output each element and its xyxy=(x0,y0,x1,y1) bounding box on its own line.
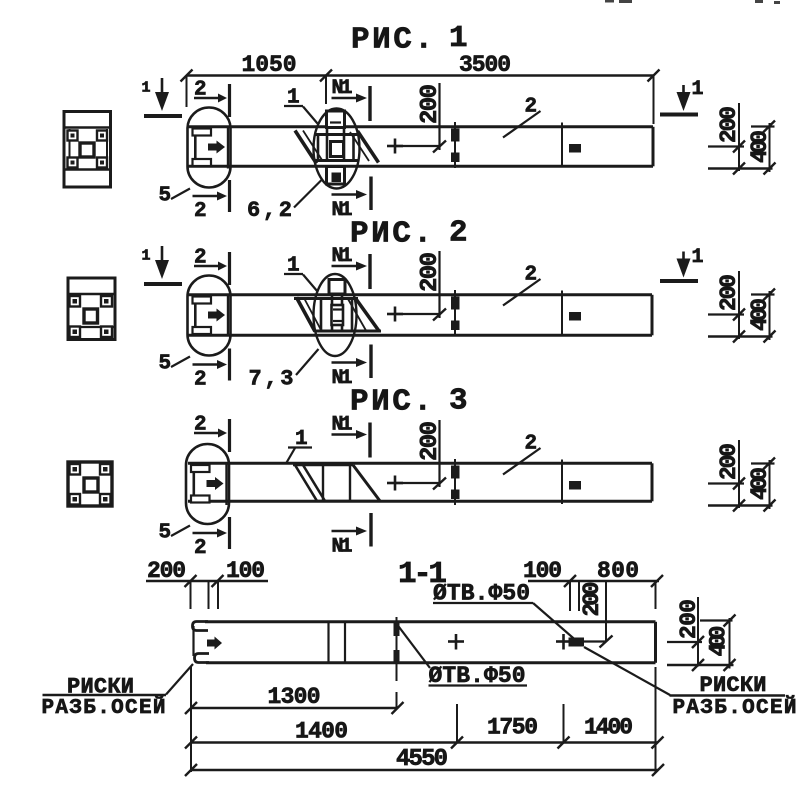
section mark N1 top fig2 xyxy=(332,245,371,289)
riski label left xyxy=(42,664,194,720)
label 1 fig1 xyxy=(284,87,318,124)
dims 200/400 right fig3 xyxy=(708,440,776,512)
hole label OTV F50 lower xyxy=(398,625,528,689)
joint tick marks fig3 xyxy=(451,459,581,505)
extension lines bottom xyxy=(190,667,192,772)
oval detail fig3 xyxy=(186,444,229,524)
beam section 1-1 xyxy=(205,622,656,663)
svg-text:РАЗБ.ОСЕЙ: РАЗБ.ОСЕЙ xyxy=(42,696,166,720)
dim 4550 xyxy=(185,746,664,776)
dims 200/400 right fig2 xyxy=(708,271,776,343)
svg-text:1: 1 xyxy=(142,80,151,97)
svg-text:6,2: 6,2 xyxy=(247,198,292,223)
joint detail fig3: parallelogram weld xyxy=(293,465,380,501)
section mark 2 bottom fig2 xyxy=(193,349,230,392)
svg-text:РИС.: РИС. xyxy=(351,23,433,58)
dim 200 mid fig2 xyxy=(387,251,446,322)
section mark 2 top fig1 xyxy=(194,79,230,118)
joint tick marks fig2 xyxy=(451,290,581,336)
section mark 2 bottom fig1 xyxy=(193,180,230,223)
section mark 2 top fig2 xyxy=(194,247,230,286)
joint detail fig1: ellipse xyxy=(314,109,360,189)
svg-text:200: 200 xyxy=(579,582,605,617)
joint fig1: connection plates xyxy=(318,111,354,184)
svg-text:1400: 1400 xyxy=(295,719,348,745)
dim 200 mid fig1 xyxy=(387,83,446,154)
beam fig2 xyxy=(188,295,652,336)
joint fig1: parallelogram weld xyxy=(295,131,379,164)
svg-text:РИС.: РИС. xyxy=(350,217,432,252)
joint fig2: connection plates xyxy=(321,280,352,332)
section mark N1 bottom fig3 xyxy=(332,513,372,559)
dims 200/400 right fig1 xyxy=(708,103,776,175)
top right dims 100 800 xyxy=(523,558,663,611)
svg-text:1: 1 xyxy=(692,246,704,269)
oval detail fig2 xyxy=(188,276,231,356)
label 2 beam fig3 xyxy=(503,433,541,475)
svg-text:1400: 1400 xyxy=(584,715,633,741)
svg-text:400: 400 xyxy=(706,626,732,657)
svg-text:1: 1 xyxy=(692,78,704,101)
svg-text:7,3: 7,3 xyxy=(249,367,294,392)
cross-section symbol fig1 xyxy=(64,112,111,188)
section mark 2 bottom fig3 xyxy=(193,517,230,560)
svg-text:3: 3 xyxy=(449,384,468,419)
riski label right xyxy=(584,647,797,720)
svg-text:РИСКИ: РИСКИ xyxy=(700,673,767,698)
top left dims 200 100 xyxy=(146,558,268,609)
beam fig1 xyxy=(188,127,653,167)
svg-text:РИС.: РИС. xyxy=(350,385,432,420)
dim 1400 1750 1400 xyxy=(185,704,664,749)
label 2 beam fig2 xyxy=(503,264,541,306)
hole label OTV F50 upper xyxy=(433,581,576,641)
label 5 fig3 xyxy=(159,522,191,545)
top edge scan fragments xyxy=(605,0,780,4)
joint tick marks fig1 xyxy=(451,122,581,168)
svg-text:1750: 1750 xyxy=(487,715,538,741)
section mark N1 bottom fig1 xyxy=(332,177,372,223)
beam left end riski detail xyxy=(193,622,223,663)
beam fig3 xyxy=(188,463,652,501)
section mark N1 top fig3 xyxy=(332,414,371,458)
hole mark right xyxy=(556,634,584,650)
center cross section xyxy=(448,634,464,650)
svg-text:2: 2 xyxy=(449,216,468,251)
dim 1300 xyxy=(185,684,404,714)
svg-text:РАЗБ.ОСЕЙ: РАЗБ.ОСЕЙ xyxy=(673,696,797,720)
right dims section: 200/400 xyxy=(667,597,736,671)
dim 200 mid fig3 xyxy=(387,420,446,491)
label 5 fig2 xyxy=(159,353,191,376)
200 vert dim near 800 xyxy=(579,582,613,648)
svg-text:1: 1 xyxy=(142,248,151,265)
joint fig2: parallelogram weld xyxy=(294,298,381,332)
cross-section symbol fig3 xyxy=(68,462,112,506)
joint detail fig2: ellipse xyxy=(314,274,357,356)
svg-text:3500: 3500 xyxy=(459,52,511,78)
svg-text:1: 1 xyxy=(449,21,468,56)
section mark N1 bottom fig2 xyxy=(332,345,372,391)
dim line 1050/3500 xyxy=(181,70,660,125)
svg-text:1300: 1300 xyxy=(268,684,321,710)
beam joint lines section xyxy=(327,621,329,663)
label 5 fig1 xyxy=(159,185,191,208)
oval detail fig1 xyxy=(188,108,231,188)
label 1 fig2 xyxy=(284,255,318,292)
svg-text:1050: 1050 xyxy=(242,52,297,78)
cross-section symbol fig2 xyxy=(68,278,115,340)
section axis line with marks xyxy=(394,617,400,708)
section mark 2 top fig3 xyxy=(194,414,230,453)
label 2 beam fig1 xyxy=(503,96,541,138)
section mark N1 top fig1 xyxy=(332,77,371,121)
